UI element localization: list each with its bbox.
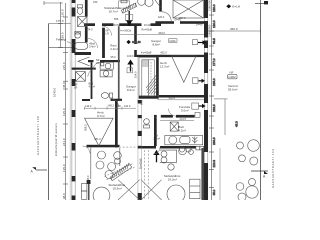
stair flight inner xyxy=(142,60,155,96)
svg-text:215.0: 215.0 xyxy=(62,62,66,70)
door arrow right mid xyxy=(193,78,205,84)
svg-text:281.0: 281.0 xyxy=(94,137,101,141)
svg-text:95.0: 95.0 xyxy=(160,53,166,57)
svg-text:95.0: 95.0 xyxy=(111,55,117,59)
veroend edge line bottom xyxy=(219,148,221,200)
svg-text:HAFNARSTRAETI 104: HAFNARSTRAETI 104 xyxy=(271,149,275,188)
door arc bath mid xyxy=(94,62,101,69)
dim line 402.5 lower xyxy=(157,99,204,101)
svg-text:120.3: 120.3 xyxy=(212,160,216,168)
svg-text:55.6m²: 55.6m² xyxy=(228,87,237,91)
svg-text:LR: LR xyxy=(96,61,99,65)
bench oval entry xyxy=(75,42,88,49)
wall v3 xyxy=(134,26,137,44)
wall v5 center spine xyxy=(137,57,140,200)
dim chain left x65.5 xyxy=(65,3,67,200)
wc small left xyxy=(75,32,81,38)
svg-text:45.0: 45.0 xyxy=(234,121,238,127)
svg-text:19.5m²: 19.5m² xyxy=(113,186,122,190)
svg-text:2.4m²: 2.4m² xyxy=(110,47,118,51)
window rects bottom left xyxy=(82,184,87,192)
wall h2 bath top xyxy=(88,60,94,62)
main stairwell enclosure xyxy=(139,57,159,96)
window X box top left xyxy=(77,17,87,27)
svg-text:45.0: 45.0 xyxy=(212,189,216,195)
wall v-rani xyxy=(102,28,105,58)
svg-text:135.0: 135.0 xyxy=(212,78,216,86)
svg-text:238.5: 238.5 xyxy=(212,137,216,145)
deck dashed lines xyxy=(144,150,146,200)
stair hatch band diagonal xyxy=(146,73,158,95)
svg-text:19.7m²: 19.7m² xyxy=(109,10,118,14)
svg-text:241.5: 241.5 xyxy=(180,117,187,121)
small box top xyxy=(121,0,127,3)
svg-text:Þv-90Clb: Þv-90Clb xyxy=(121,28,132,32)
svg-text:Fellstigi: Fellstigi xyxy=(56,38,67,42)
wc right of stairs xyxy=(144,119,150,125)
door arc bedroom xyxy=(162,12,171,21)
svg-text:135.0: 135.0 xyxy=(62,108,66,116)
wall v1 top xyxy=(85,0,88,17)
upper stair hatch band xyxy=(121,3,137,14)
dim line 949 xyxy=(120,34,204,36)
dining table left xyxy=(93,187,110,204)
bathtub row bad right xyxy=(165,136,203,145)
svg-text:368.5: 368.5 xyxy=(83,124,87,131)
svg-text:8.6m²: 8.6m² xyxy=(153,42,161,46)
right outer wall piers xyxy=(204,0,208,18)
stair center dashed xyxy=(150,62,152,93)
svg-text:19.2m²: 19.2m² xyxy=(168,177,177,181)
svg-text:556: 556 xyxy=(114,17,119,21)
boundary tick top right xyxy=(255,3,264,5)
property line right xyxy=(260,3,262,200)
door arc corridor top xyxy=(102,26,112,36)
svg-text:2.2m²: 2.2m² xyxy=(154,137,161,141)
wall v corridor left xyxy=(118,26,120,99)
door arc hol xyxy=(153,147,160,154)
wall h6 right bath bottom xyxy=(140,146,156,149)
svg-text:D=40: D=40 xyxy=(144,23,151,27)
svg-text:G=2,88: G=2,88 xyxy=(132,40,141,44)
svg-text:LR: LR xyxy=(74,86,77,90)
svg-text:192.5: 192.5 xyxy=(212,104,216,112)
tag G901 xyxy=(169,39,178,43)
shower X box xyxy=(76,72,86,82)
svg-text:8.2m²: 8.2m² xyxy=(127,88,135,92)
svg-text:LR: LR xyxy=(106,32,109,36)
left outer wall face lines xyxy=(69,0,71,200)
entry door arrow + LR box xyxy=(192,103,206,109)
wall h5 forstofa bottom xyxy=(154,115,157,118)
svg-text:241.0: 241.0 xyxy=(62,138,66,146)
stairwell right wall xyxy=(156,57,159,96)
svg-text:174.0: 174.0 xyxy=(86,28,93,32)
door arc kitchen left xyxy=(83,146,91,154)
LR box hall xyxy=(127,68,133,73)
svg-text:45.0: 45.0 xyxy=(62,82,66,88)
bedroom bottom wall h1b xyxy=(155,21,174,24)
fellstigi chevron xyxy=(78,57,90,66)
niche box at arrow xyxy=(125,15,133,21)
upper stair dashed box xyxy=(119,1,130,8)
kitchen counter left xyxy=(90,148,92,180)
kitchen circles left xyxy=(98,151,106,159)
hall up arrow xyxy=(127,60,133,72)
svg-text:120.0: 120.0 xyxy=(212,20,216,28)
wc top left xyxy=(77,8,82,15)
second chain x228 xyxy=(224,99,226,135)
corridor top wall h1 xyxy=(84,23,95,26)
svg-text:177.0: 177.0 xyxy=(212,58,216,66)
stairwell bottom band h4 xyxy=(139,96,159,99)
dining table right xyxy=(167,185,185,203)
washer boxes xyxy=(196,146,200,150)
LR tag at wall h5 xyxy=(195,112,200,117)
kitchen counter right xyxy=(160,150,177,162)
svg-text:340: 340 xyxy=(93,0,98,4)
svg-text:Ø=60: Ø=60 xyxy=(175,18,182,22)
section marker A right xyxy=(251,170,268,172)
svg-text:D=60: D=60 xyxy=(114,23,121,27)
door arrow right top xyxy=(193,40,207,45)
svg-text:3160/1060: 3160/1060 xyxy=(208,24,212,37)
svg-text:149.2: 149.2 xyxy=(108,104,115,108)
right outer wall face lines xyxy=(203,0,206,200)
marker G=2,88 diamond xyxy=(126,40,141,44)
door arc bad3.4 xyxy=(88,39,97,48)
dim row herb9 xyxy=(84,107,136,109)
svg-text:98.0: 98.0 xyxy=(62,193,66,199)
svg-text:104.0: 104.0 xyxy=(133,71,137,78)
kitchen up arrow xyxy=(153,150,159,163)
marker G=LH diamond xyxy=(226,4,231,8)
plant symbol xyxy=(192,137,197,144)
svg-text:175.0: 175.0 xyxy=(56,19,64,23)
stair treads xyxy=(142,59,149,61)
svg-text:144.2: 144.2 xyxy=(85,104,92,108)
door arc herb9 xyxy=(110,99,118,107)
svg-text:G901: G901 xyxy=(169,39,176,43)
svg-text:60.0: 60.0 xyxy=(140,99,144,105)
svg-text:120.0: 120.0 xyxy=(212,4,216,12)
tick label xyxy=(264,1,268,4)
svg-text:5.0m²: 5.0m² xyxy=(181,108,189,112)
svg-text:100.0: 100.0 xyxy=(127,54,134,58)
NF G302 Veroend labels xyxy=(228,71,238,92)
svg-text:D=40: D=40 xyxy=(196,23,203,27)
svg-text:4.2m²: 4.2m² xyxy=(89,85,96,89)
left wall piers xyxy=(72,0,76,3)
dim line 360.0 xyxy=(208,30,261,32)
wall entry h at y52 xyxy=(75,52,92,55)
bedroom left wall stub xyxy=(159,0,162,12)
svg-text:9.7m²: 9.7m² xyxy=(97,114,105,118)
closet bottom right xyxy=(190,179,200,199)
svg-text:1040.0: 1040.0 xyxy=(53,87,57,97)
wall v2 bath left xyxy=(91,62,93,99)
wall h2b entry xyxy=(73,68,96,70)
stair down arrow xyxy=(126,11,132,27)
svg-text:402.5: 402.5 xyxy=(169,96,176,100)
toilet bath mid xyxy=(100,70,112,77)
lower stair hatch xyxy=(105,163,135,181)
svg-text:HAFNARSTRAETI 108: HAFNARSTRAETI 108 xyxy=(36,116,40,155)
svg-text:3,4m²: 3,4m² xyxy=(89,45,96,49)
svg-text:135.0: 135.0 xyxy=(62,164,66,172)
bed herb9 triangle xyxy=(85,118,114,146)
svg-text:4.2m²: 4.2m² xyxy=(178,128,186,132)
wall corner bottom-left xyxy=(87,180,91,184)
svg-text:120.0: 120.0 xyxy=(158,15,165,19)
bed top right with X xyxy=(173,0,204,18)
shower bad right xyxy=(170,122,178,131)
svg-text:Þv=65d8: Þv=65d8 xyxy=(141,50,152,54)
door arc entry lower xyxy=(88,69,96,77)
dim line 175.0 horizontal xyxy=(49,23,72,25)
deck X bottom middle xyxy=(118,180,162,200)
svg-text:Rv=65d8: Rv=65d8 xyxy=(142,27,153,31)
svg-text:964.0: 964.0 xyxy=(159,31,166,35)
svg-text:360.0: 360.0 xyxy=(230,27,238,31)
svg-text:88.5: 88.5 xyxy=(212,38,216,44)
svg-text:435.0: 435.0 xyxy=(86,175,90,182)
svg-text:G=LH: G=LH xyxy=(232,5,240,9)
section marker A left xyxy=(36,169,47,171)
property line left xyxy=(48,24,50,201)
wall v7 hol right xyxy=(154,118,157,146)
wall v8 closet back xyxy=(201,148,204,200)
sink counter bath mid xyxy=(100,62,113,69)
svg-text:3160/1060: 3160/1060 xyxy=(208,0,212,11)
wall h3 herb12 top xyxy=(137,55,204,57)
dim chain upper-left x60 xyxy=(60,2,62,48)
toilet arc top wc2 xyxy=(138,0,146,5)
wc oval mid left xyxy=(101,93,109,99)
svg-text:142.0: 142.0 xyxy=(124,104,131,108)
wall v4 herb9 right xyxy=(115,101,118,148)
svg-text:Einhalla þak W austurs: Einhalla þak W austurs xyxy=(54,122,58,156)
svg-text:G302: G302 xyxy=(228,75,236,79)
wall h6 kitchen top left xyxy=(87,145,120,148)
kitchen circles right xyxy=(161,151,167,157)
door arc forstofa xyxy=(169,109,177,117)
svg-text:120.0: 120.0 xyxy=(61,9,65,17)
ground line y47.7 xyxy=(49,47,72,49)
svg-text:Rv=65d8: Rv=65d8 xyxy=(138,158,142,169)
wall h mid (herb9 top) xyxy=(82,99,90,101)
sink circles kitchen wall xyxy=(179,147,184,152)
svg-text:12.3m²: 12.3m² xyxy=(160,64,169,68)
dim 241.5 xyxy=(160,120,194,122)
svg-text:NF: NF xyxy=(230,71,234,75)
trees group right xyxy=(236,140,259,201)
bed herb12 triangle xyxy=(172,56,197,82)
